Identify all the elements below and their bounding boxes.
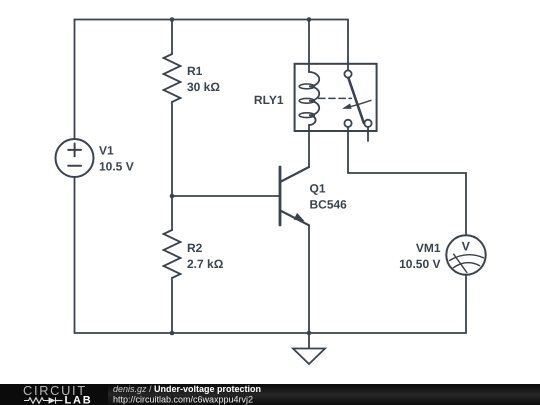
ground — [293, 333, 325, 364]
wire bottom rail — [75, 332, 467, 334]
svg-text:VM1: VM1 — [416, 241, 441, 255]
stub NC — [367, 127, 369, 141]
junction node top R1 — [170, 17, 175, 22]
svg-text:V1: V1 — [99, 143, 114, 157]
svg-text:R2: R2 — [187, 241, 203, 255]
svg-text:Q1: Q1 — [310, 182, 326, 196]
svg-text:2.7 kΩ: 2.7 kΩ — [187, 257, 224, 271]
transistor Q1 — [280, 167, 309, 225]
coil arcs — [309, 72, 319, 125]
switch arm — [348, 78, 363, 123]
logo resistor-diode icon — [24, 397, 63, 403]
voltmeter VM1 — [446, 235, 485, 274]
svg-text:LAB: LAB — [65, 395, 93, 405]
relay RLY1 — [295, 20, 377, 142]
switch common lead — [347, 20, 349, 71]
switch NO contact — [344, 120, 351, 127]
junction node bottom R2 — [170, 331, 175, 336]
svg-text:RLY1: RLY1 — [254, 93, 284, 107]
wire R1 top lead — [171, 20, 173, 55]
svg-text:10.50 V: 10.50 V — [399, 257, 440, 271]
svg-text:http://circuitlab.com/c6waxppu: http://circuitlab.com/c6waxppu4rvj2 — [113, 394, 253, 404]
junction node top coil — [307, 17, 312, 22]
wire base of Q1 — [172, 195, 279, 197]
dashed actuation link — [319, 97, 352, 99]
junction node divider/base — [170, 194, 175, 199]
switch NC contact — [364, 120, 371, 127]
resistor R2 — [164, 230, 181, 278]
resistor R1 — [164, 54, 181, 102]
wire voltmeter bottom — [465, 275, 467, 333]
wire R1 to node — [171, 102, 173, 230]
wire left rail (V1 branch) — [74, 20, 76, 140]
actuation arrow — [350, 100, 371, 106]
voltage source V1 — [56, 139, 94, 177]
svg-text:BC546: BC546 — [310, 198, 348, 212]
footer logo box — [0, 384, 108, 405]
svg-text:10.5 V: 10.5 V — [99, 159, 134, 173]
svg-text:denis.gz / Under-voltage prote: denis.gz / Under-voltage protection — [113, 384, 261, 394]
junction node bottom emitter/ground — [307, 331, 312, 336]
wire top rail — [75, 19, 349, 21]
svg-text:R1: R1 — [187, 64, 203, 78]
footer bar — [0, 384, 540, 405]
svg-text:V: V — [462, 239, 471, 253]
wire relay NO to voltmeter — [348, 127, 466, 235]
svg-text:30 kΩ: 30 kΩ — [187, 80, 220, 94]
wire collector to relay coil — [308, 125, 310, 167]
wire emitter to ground rail — [308, 225, 310, 333]
coil lead from top rail — [308, 20, 310, 73]
wire R2 bottom lead — [171, 278, 173, 333]
